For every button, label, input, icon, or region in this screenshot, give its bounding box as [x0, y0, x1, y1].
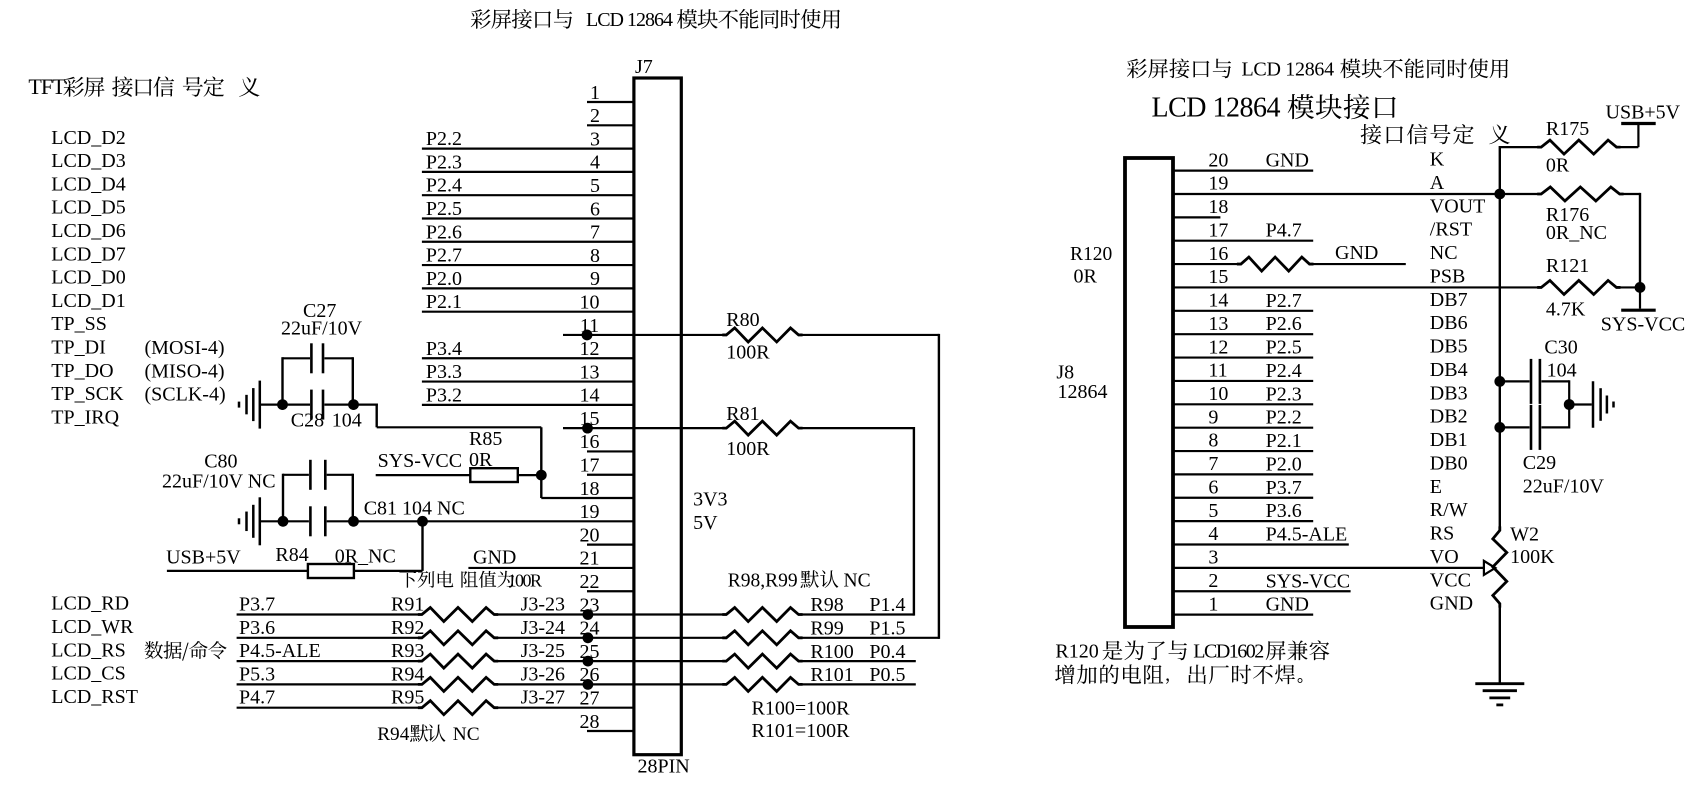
wire J8 pin 1 (GND) — [1173, 593, 1473, 616]
svg-text:(SCLK-4): (SCLK-4) — [145, 384, 226, 406]
svg-text:DB5: DB5 — [1430, 336, 1468, 358]
svg-text:DB2: DB2 — [1430, 406, 1468, 428]
wire J7 pin 10 (P2.1) — [422, 291, 634, 313]
svg-text:27: 27 — [580, 687, 600, 709]
svg-text:13: 13 — [580, 361, 600, 383]
node LCD_D5 — [51, 197, 125, 219]
svg-text:3V3: 3V3 — [693, 489, 727, 511]
svg-text:R120: R120 — [1055, 641, 1098, 663]
wire C30 to C29 — [1499, 381, 1501, 427]
resistor R99 — [722, 618, 939, 645]
node LCD_CS — [51, 663, 125, 685]
svg-text:R100=100R: R100=100R — [752, 698, 851, 720]
junction pin 26 — [583, 679, 594, 690]
wire J7 pin 20 stub — [580, 524, 634, 546]
svg-text:R94: R94 — [377, 724, 410, 745]
capacitor C30 — [1500, 337, 1578, 404]
svg-text:TP_DO: TP_DO — [51, 360, 113, 382]
wire J7 pin 5 (P2.4) — [422, 175, 634, 197]
svg-text:5V: 5V — [693, 512, 718, 534]
svg-text:22uF/10V: 22uF/10V — [1523, 476, 1605, 498]
svg-text:LCD 12864: LCD 12864 — [1242, 59, 1335, 81]
wire J8 pin 14 (P2.7) — [1173, 289, 1468, 312]
wire J8 pin 3 (VO) to W2 wiper — [1173, 546, 1495, 575]
svg-text:LCD_RST: LCD_RST — [51, 686, 138, 708]
wire J8 pin 18 stub — [1173, 195, 1485, 218]
note R100=100R — [752, 698, 851, 743]
svg-text:NC: NC — [844, 571, 871, 592]
svg-text:TP_SCK: TP_SCK — [51, 383, 124, 405]
svg-text:1: 1 — [590, 82, 600, 104]
svg-text:12: 12 — [580, 338, 600, 360]
resistor R175 — [1500, 118, 1639, 177]
power SYS-VCC — [1601, 287, 1685, 335]
wire J7 pin 13 (P3.3) — [422, 361, 634, 383]
svg-text:LCD_RS: LCD_RS — [51, 639, 125, 661]
svg-text:LCD_D0: LCD_D0 — [51, 267, 125, 289]
svg-text:0R: 0R — [1074, 266, 1098, 288]
svg-text:R80: R80 — [726, 309, 759, 331]
svg-text:P2.4: P2.4 — [1266, 360, 1302, 382]
wire R80 to R99 — [938, 334, 940, 639]
note R98 R99 default NC — [728, 570, 871, 591]
svg-text:VO: VO — [1430, 546, 1459, 568]
svg-text:LCD_RD: LCD_RD — [51, 593, 129, 615]
wire J7 pin 9 (P2.0) — [422, 268, 634, 290]
wire J8 pin 7 (P2.0) — [1173, 452, 1468, 475]
wire C29 node to W2 — [1499, 427, 1501, 530]
svg-text:P2.3: P2.3 — [1266, 383, 1302, 405]
svg-text:J3-27: J3-27 — [521, 687, 565, 709]
svg-text:P3.3: P3.3 — [426, 361, 462, 383]
capacitor C27 — [281, 300, 363, 373]
junction C28 right — [348, 399, 359, 410]
wire R176 to R121 — [1639, 193, 1641, 288]
wire J7 pin 18 from R85 node — [541, 478, 634, 500]
resistor R120 (pin 16) — [1173, 242, 1458, 271]
wire J8 pin 9 (P2.2) — [1173, 406, 1468, 429]
svg-text:28: 28 — [580, 711, 600, 733]
label R120 0R — [1070, 244, 1112, 288]
wire C80 risers — [283, 474, 353, 522]
svg-text:15: 15 — [1208, 266, 1228, 288]
svg-text:J3-26: J3-26 — [521, 663, 565, 685]
svg-text:LCD_D5: LCD_D5 — [51, 197, 125, 219]
svg-text:9: 9 — [1208, 406, 1218, 428]
svg-text:6: 6 — [1208, 476, 1218, 498]
svg-text:LCD 12864: LCD 12864 — [586, 9, 673, 31]
node LCD_RS — [51, 639, 125, 661]
svg-text:SYS-VCC: SYS-VCC — [1601, 314, 1685, 336]
resistor R91 — [237, 594, 727, 622]
svg-text:P4.7: P4.7 — [1266, 220, 1302, 242]
junction pin 24 — [583, 632, 594, 643]
svg-text:P3.4: P3.4 — [426, 338, 462, 360]
svg-text:100R: 100R — [508, 570, 543, 590]
note (MISO-4) — [145, 360, 225, 382]
potentiometer W2 — [1493, 524, 1555, 608]
wire J7 pin 22 stub — [580, 571, 634, 593]
svg-text:SYS-VCC: SYS-VCC — [378, 450, 462, 472]
svg-text:(MISO-4): (MISO-4) — [145, 360, 225, 382]
svg-text:1: 1 — [1208, 593, 1218, 615]
wire J7 pin 19 from C81 node — [423, 501, 634, 523]
svg-text:100R: 100R — [726, 341, 770, 363]
capacitor C29 — [1500, 405, 1605, 498]
resistor R176 — [1500, 187, 1640, 244]
wire C81 node to R84 — [421, 521, 423, 571]
wire J8 pin 13 (P2.6) — [1173, 312, 1468, 335]
node TP_SCK — [51, 383, 124, 405]
svg-text:0R: 0R — [469, 449, 493, 471]
wire J7 pin 17 stub — [580, 455, 634, 477]
svg-text:NC: NC — [1430, 242, 1458, 264]
wire J8 pin 6 (P3.7) — [1173, 476, 1442, 499]
wire J7 pin 4 (P2.3) — [422, 151, 634, 173]
svg-text:28PIN: 28PIN — [638, 755, 690, 777]
svg-text:R94: R94 — [391, 663, 424, 685]
svg-text:P2.1: P2.1 — [426, 291, 462, 313]
note: top title — [471, 9, 840, 31]
svg-text:P2.6: P2.6 — [426, 221, 462, 243]
svg-text:NC: NC — [453, 724, 480, 745]
svg-text:J3-25: J3-25 — [521, 640, 565, 662]
svg-text:7: 7 — [590, 222, 600, 244]
svg-text:P0.5: P0.5 — [869, 664, 905, 686]
junction C30 — [1494, 376, 1505, 387]
svg-text:4: 4 — [590, 152, 600, 174]
svg-text:LCD_D2: LCD_D2 — [51, 127, 125, 149]
svg-text:21: 21 — [580, 548, 600, 570]
note: left heading TFT interface — [28, 74, 259, 99]
note R120 explanation line 2 — [1055, 664, 1302, 684]
note R120 explanation line 1 — [1055, 640, 1329, 662]
resistor R81 — [722, 403, 914, 460]
svg-text:TFT: TFT — [28, 74, 66, 99]
svg-text:GND: GND — [1266, 594, 1309, 616]
connector J7 body — [634, 56, 681, 755]
svg-text:DB1: DB1 — [1430, 429, 1468, 451]
svg-text:R85: R85 — [469, 428, 502, 450]
svg-text:19: 19 — [1208, 173, 1228, 195]
wire J7 pin 11 to R80 — [563, 315, 726, 341]
resistor R100 — [722, 641, 916, 668]
wire J7 pin 16 stub — [580, 431, 634, 453]
note R94 default NC — [377, 724, 479, 745]
svg-text:P3.2: P3.2 — [426, 384, 462, 406]
node LCD_D2 — [51, 127, 125, 149]
svg-text:P2.7: P2.7 — [1266, 290, 1302, 312]
svg-text:DB6: DB6 — [1430, 312, 1468, 334]
note: LCD 12864 module heading — [1152, 93, 1396, 124]
node LCD_D3 — [51, 150, 125, 172]
wire J7 pin 3 (P2.2) — [422, 128, 634, 150]
wire J8 pin 11 (P2.4) — [1173, 359, 1468, 382]
ground near C30/C29 — [1593, 381, 1614, 428]
node USB+5V (left) — [166, 547, 241, 569]
svg-text:C80: C80 — [204, 451, 237, 473]
svg-text:11: 11 — [1208, 360, 1227, 382]
svg-text:R121: R121 — [1546, 255, 1589, 277]
wire J8 pin 4 (P4.5-ALE) — [1173, 523, 1454, 546]
svg-text:4.7K: 4.7K — [1546, 299, 1586, 321]
svg-text:22: 22 — [580, 571, 600, 593]
svg-text:P4.7: P4.7 — [239, 687, 275, 709]
svg-text:DB3: DB3 — [1430, 382, 1468, 404]
junction C81 mid — [348, 516, 359, 527]
resistor R98 — [722, 594, 914, 621]
svg-text:6: 6 — [590, 198, 600, 220]
svg-text:P2.5: P2.5 — [1266, 337, 1302, 359]
node LCD_D6 — [51, 220, 125, 242]
svg-text:GND: GND — [473, 546, 516, 568]
svg-text:P2.2: P2.2 — [1266, 407, 1302, 429]
note (MOSI-4) — [145, 337, 225, 359]
wire J8 pin 2 (SYS-VCC) — [1173, 569, 1471, 592]
resistor R84 — [167, 544, 423, 578]
svg-text:12864: 12864 — [1058, 381, 1108, 403]
svg-text:P5.3: P5.3 — [239, 663, 275, 685]
svg-text:22uF/10V NC: 22uF/10V NC — [162, 471, 276, 493]
svg-text:C81 104 NC: C81 104 NC — [364, 498, 465, 520]
wire J7 pin 14 (P3.2) — [422, 384, 634, 406]
wire J7 pin 12 (P3.4) — [422, 338, 634, 360]
wire R81 to R98 — [913, 427, 915, 616]
svg-text:20: 20 — [1208, 149, 1228, 171]
node TP_DO — [51, 360, 113, 382]
ground below W2 — [1475, 684, 1524, 705]
svg-text:LCD 12864: LCD 12864 — [1152, 93, 1281, 124]
resistor R80 — [722, 309, 939, 364]
svg-text:USB+5V: USB+5V — [1606, 102, 1681, 124]
svg-text:P2.0: P2.0 — [426, 268, 462, 290]
svg-text:VOUT: VOUT — [1430, 195, 1486, 217]
svg-text:J3-24: J3-24 — [521, 617, 565, 639]
node TP_IRQ — [51, 406, 119, 428]
resistor R95 — [237, 687, 634, 715]
svg-text:2: 2 — [1208, 570, 1218, 592]
svg-text:R/W: R/W — [1430, 499, 1468, 521]
svg-text:104: 104 — [1547, 360, 1577, 382]
wire node to pin18 — [540, 427, 542, 498]
svg-text:8: 8 — [590, 245, 600, 267]
junction A row — [1494, 189, 1505, 200]
svg-text:14: 14 — [1208, 290, 1228, 312]
svg-text:R101: R101 — [810, 664, 853, 686]
svg-text:16: 16 — [580, 431, 600, 453]
svg-text:P4.5-ALE: P4.5-ALE — [239, 640, 321, 662]
capacitor C80 — [162, 451, 353, 493]
wire J7 pin 26 — [580, 664, 600, 686]
node TP_SS — [51, 313, 107, 335]
node LCD_WR — [51, 616, 134, 638]
junction C28 left — [277, 399, 288, 410]
junction capacitors mid — [1564, 399, 1575, 410]
svg-text:P3.6: P3.6 — [239, 617, 275, 639]
svg-text:W2: W2 — [1510, 524, 1539, 546]
svg-text:9: 9 — [590, 268, 600, 290]
wire J8 pin 8 (P2.1) — [1173, 429, 1468, 452]
svg-text:VCC: VCC — [1430, 569, 1471, 591]
power USB+5V — [1606, 102, 1681, 148]
node TP_DI — [51, 336, 105, 358]
svg-text:R84: R84 — [275, 544, 308, 566]
ground near C28 — [239, 381, 260, 429]
resistor R94 — [237, 663, 727, 691]
svg-text:USB+5V: USB+5V — [166, 547, 241, 569]
svg-text:10: 10 — [1208, 383, 1228, 405]
svg-text:E: E — [1430, 476, 1442, 498]
svg-text:DB4: DB4 — [1430, 359, 1468, 381]
svg-text:R98,R99: R98,R99 — [728, 571, 798, 592]
svg-text:R101=100R: R101=100R — [752, 720, 851, 742]
wire W2 to ground — [1499, 604, 1501, 684]
svg-text:12: 12 — [1208, 336, 1228, 358]
svg-text:20: 20 — [580, 524, 600, 546]
wire J7 pin 6 (P2.5) — [422, 198, 634, 220]
wire J7 pin 21 GND — [468, 546, 634, 569]
wire J8 pin 12 (P2.5) — [1173, 336, 1468, 359]
svg-text:C30: C30 — [1544, 337, 1577, 359]
node LCD_D4 — [51, 173, 125, 195]
node LCD_RST — [51, 686, 138, 708]
svg-text:4: 4 — [1208, 523, 1218, 545]
capacitor C28 — [260, 390, 378, 432]
wire J7 pin 7 (P2.6) — [422, 221, 634, 243]
junction pin 23 — [583, 609, 594, 620]
svg-text:DB7: DB7 — [1430, 289, 1468, 311]
junction C81 left — [278, 516, 289, 527]
wire J8 pin 15 (PSB) to R121 — [1173, 265, 1541, 288]
wire J7 pin 25 — [580, 641, 600, 663]
resistor R121 — [1537, 255, 1640, 321]
svg-text:P2.5: P2.5 — [426, 198, 462, 220]
svg-text:LCD_CS: LCD_CS — [51, 663, 125, 685]
svg-text:5: 5 — [1208, 500, 1218, 522]
svg-text:P4.5-ALE: P4.5-ALE — [1266, 524, 1348, 546]
svg-text:C29: C29 — [1523, 452, 1556, 474]
svg-text:104: 104 — [332, 410, 362, 432]
svg-text:GND: GND — [1266, 150, 1309, 172]
node LCD_D1 — [51, 290, 125, 312]
wire J7 pin 28 stub — [580, 711, 634, 733]
note: interface signal definition subheading — [1361, 124, 1510, 144]
svg-text:R91: R91 — [391, 594, 424, 616]
wire J7 pin 2 stub — [587, 105, 634, 127]
svg-text:TP_IRQ: TP_IRQ — [51, 406, 119, 428]
svg-text:GND: GND — [1335, 242, 1378, 264]
svg-text:P2.3: P2.3 — [426, 151, 462, 173]
resistor R85 — [376, 428, 542, 482]
svg-text:R175: R175 — [1546, 118, 1589, 140]
wire J7 pin 23 — [580, 594, 600, 616]
node LCD_D0 — [51, 267, 125, 289]
svg-text:P2.2: P2.2 — [426, 128, 462, 150]
note data/command — [145, 641, 227, 661]
resistor R93 — [237, 640, 727, 668]
svg-text:J3-23: J3-23 — [521, 594, 565, 616]
svg-text:R100: R100 — [810, 641, 853, 663]
svg-text:22uF/10V: 22uF/10V — [281, 318, 363, 340]
svg-text:LCD_D6: LCD_D6 — [51, 220, 125, 242]
svg-text:LCD_WR: LCD_WR — [51, 616, 134, 638]
wire J7 pin 8 (P2.7) — [422, 245, 634, 267]
svg-text:LCD_D7: LCD_D7 — [51, 243, 125, 265]
svg-text:(MOSI-4): (MOSI-4) — [145, 337, 225, 359]
svg-text:P3.6: P3.6 — [1266, 500, 1302, 522]
svg-text:PSB: PSB — [1430, 265, 1466, 287]
svg-text:18: 18 — [1208, 196, 1228, 218]
wire J8 pin 17 (P4.7) — [1173, 219, 1472, 242]
svg-text:0R_NC: 0R_NC — [1546, 222, 1607, 244]
capacitor C81 — [260, 498, 465, 537]
junction C29 — [1494, 422, 1505, 433]
svg-text:LCD_D3: LCD_D3 — [51, 150, 125, 172]
note resistor values 100R — [399, 570, 542, 590]
svg-text:P1.4: P1.4 — [869, 594, 905, 616]
note (SCLK-4) — [145, 384, 226, 406]
svg-text:DB0: DB0 — [1430, 452, 1468, 474]
svg-text:LCD_D1: LCD_D1 — [51, 290, 125, 312]
resistor R101 — [722, 664, 916, 691]
svg-text:R95: R95 — [391, 687, 424, 709]
svg-text:P2.6: P2.6 — [1266, 313, 1302, 335]
wire J7 pin 1 stub — [587, 82, 634, 104]
svg-text:3: 3 — [590, 128, 600, 150]
svg-text:SYS-VCC: SYS-VCC — [1266, 570, 1350, 592]
svg-text:P3.7: P3.7 — [239, 594, 275, 616]
wire J7 pin 15 to R81 — [563, 408, 726, 434]
svg-text:P1.5: P1.5 — [869, 618, 905, 640]
connector J8 body — [1056, 158, 1173, 627]
junction R121 right — [1635, 282, 1646, 293]
svg-text:P2.7: P2.7 — [426, 245, 462, 267]
node 3V3 5V — [693, 489, 727, 534]
svg-text:P2.0: P2.0 — [1266, 453, 1302, 475]
svg-text:2: 2 — [590, 105, 600, 127]
svg-text:0R_NC: 0R_NC — [335, 546, 396, 568]
svg-text:TP_DI: TP_DI — [51, 336, 105, 358]
label 28PIN — [638, 755, 690, 777]
svg-text:100R: 100R — [726, 438, 770, 460]
svg-text:TP_SS: TP_SS — [51, 313, 107, 335]
svg-text:18: 18 — [580, 478, 600, 500]
node LCD_RD — [51, 593, 129, 615]
svg-text:P0.4: P0.4 — [869, 641, 905, 663]
svg-text:K: K — [1430, 149, 1445, 171]
svg-text:0R: 0R — [1546, 155, 1570, 177]
svg-text:10: 10 — [580, 291, 600, 313]
resistor R92 — [237, 617, 727, 645]
svg-text:R99: R99 — [810, 618, 843, 640]
svg-text:R98: R98 — [810, 594, 843, 616]
svg-text:GND: GND — [1430, 593, 1473, 615]
svg-text:13: 13 — [1208, 313, 1228, 335]
svg-text:P3.7: P3.7 — [1266, 477, 1302, 499]
svg-text:5: 5 — [590, 175, 600, 197]
svg-text:17: 17 — [580, 455, 600, 477]
svg-text:R93: R93 — [391, 640, 424, 662]
node SYS-VCC (R85) — [378, 450, 462, 472]
ground near C81 — [239, 497, 260, 545]
svg-text:14: 14 — [580, 385, 600, 407]
svg-text:RS: RS — [1430, 523, 1454, 545]
node LCD_D7 — [51, 243, 125, 265]
wire C28 to pin15 row — [377, 404, 542, 428]
svg-text:17: 17 — [1208, 219, 1228, 241]
svg-text:A: A — [1430, 172, 1445, 194]
svg-text:R120: R120 — [1070, 244, 1112, 265]
